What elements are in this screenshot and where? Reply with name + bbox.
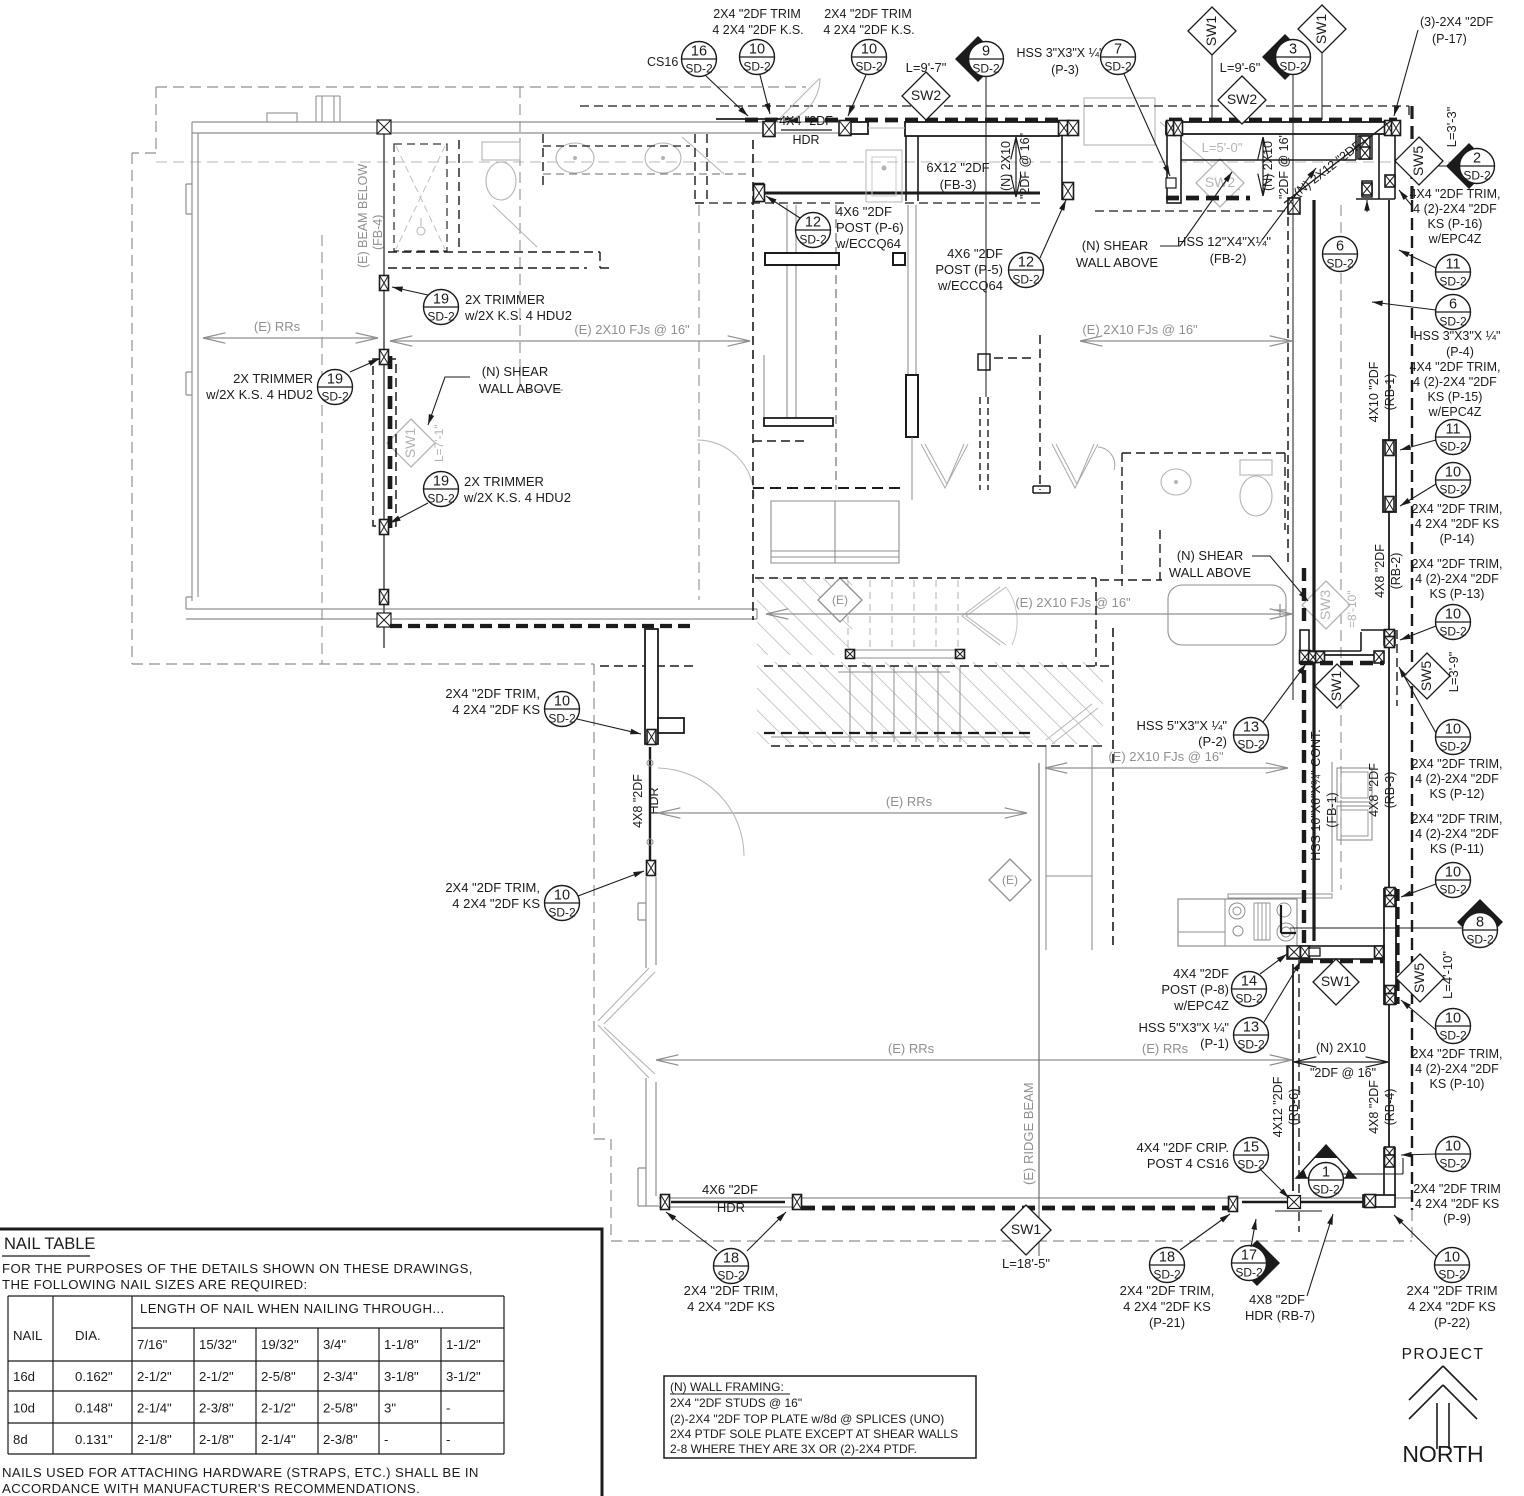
svg-text:2X4 "2DF TRIM: 2X4 "2DF TRIM	[1413, 1182, 1501, 1196]
wall framing note box	[664, 1376, 976, 1458]
closet door diagonal	[682, 137, 724, 174]
stairwell dashed bottom	[764, 732, 1030, 734]
svg-text:12: 12	[1018, 255, 1034, 271]
basement door diagonals	[1046, 704, 1098, 744]
hall closet dashed	[835, 205, 837, 490]
stove mark	[1281, 905, 1296, 933]
svg-text:NAIL: NAIL	[13, 1328, 42, 1343]
svg-text:14: 14	[1241, 974, 1257, 990]
strap left wall 4	[380, 590, 389, 605]
svg-text:SD-2: SD-2	[743, 60, 771, 74]
SW1 diamond bottom	[1001, 1205, 1051, 1255]
leader 10i	[577, 719, 641, 734]
svg-text:3: 3	[1289, 42, 1297, 58]
svg-text:4X4 "2DF: 4X4 "2DF	[1173, 966, 1229, 981]
chimney bump on north wall	[267, 113, 297, 122]
rb6 dashed	[1298, 960, 1300, 1232]
svg-text:SD-2: SD-2	[717, 1269, 745, 1283]
sofa	[771, 501, 899, 563]
leader 18b	[1180, 1214, 1230, 1250]
callout 13 b	[1234, 1018, 1269, 1053]
svg-text:HSS 5"X3"X ¼": HSS 5"X3"X ¼"	[1137, 718, 1228, 733]
svg-text:4X4 "2DF TRIM,: 4X4 "2DF TRIM,	[1409, 187, 1500, 201]
bath2 sink	[1161, 469, 1191, 495]
svg-text:10: 10	[554, 694, 570, 710]
hall west wall dashed	[752, 140, 754, 620]
shear wall bottom-left heavy dash	[390, 624, 694, 628]
svg-text:KS (P-11): KS (P-11)	[1430, 842, 1484, 856]
stair door chevron	[962, 587, 1006, 645]
vanity counter dashed	[543, 173, 746, 175]
svg-text:0.148": 0.148"	[75, 1401, 113, 1416]
svg-text:2-1/4": 2-1/4"	[261, 1432, 296, 1447]
svg-text:L=3'-3": L=3'-3"	[1444, 106, 1459, 147]
dim (N)2X10 bottom	[1294, 1061, 1388, 1063]
svg-text:(P-21): (P-21)	[1149, 1315, 1185, 1330]
svg-text:(RB-2): (RB-2)	[1389, 553, 1403, 590]
svg-text:w/EPC4Z: w/EPC4Z	[1428, 405, 1482, 419]
bath south wall dashed	[388, 252, 613, 268]
svg-text:w/2X K.S. 4 HDU2: w/2X K.S. 4 HDU2	[464, 308, 572, 323]
arrow up at right leg	[1366, 200, 1368, 212]
leader shear top	[1160, 172, 1232, 246]
callout 10 b	[852, 40, 887, 75]
SW1 diamond top a	[1188, 7, 1236, 55]
powder room vanity	[866, 150, 902, 202]
svg-text:L=3'-9": L=3'-9"	[1446, 651, 1461, 692]
svg-text:SW1: SW1	[402, 428, 418, 459]
east junction straps	[1300, 651, 1311, 664]
callout 10 i	[545, 692, 580, 727]
svg-text:2X4 "2DF TRIM,: 2X4 "2DF TRIM,	[445, 686, 540, 701]
svg-text:NAILS USED FOR ATTACHING HARDW: NAILS USED FOR ATTACHING HARDWARE (STRAP…	[2, 1465, 479, 1480]
bath door swing	[493, 205, 537, 247]
svg-text:(P-17): (P-17)	[1432, 32, 1467, 46]
svg-text:19/32": 19/32"	[261, 1337, 299, 1352]
fireplace box on north wall	[316, 96, 340, 122]
(E) 2X10 FJs dim upper-right	[1080, 340, 1292, 342]
sink basin 1	[556, 143, 594, 173]
svg-text:10: 10	[1445, 865, 1461, 881]
north wall 1 straps	[763, 122, 775, 137]
svg-text:4 (2)-2X4 "2DF: 4 (2)-2X4 "2DF	[1415, 772, 1499, 786]
beam FB-4 bottom strap	[377, 613, 391, 627]
callout 12 b	[1009, 253, 1044, 288]
svg-text:KS (P-10): KS (P-10)	[1430, 1077, 1485, 1091]
svg-text:6: 6	[1336, 239, 1344, 255]
svg-text:4 (2)-2X4 "2DF: 4 (2)-2X4 "2DF	[1415, 572, 1499, 586]
svg-text:(E) 2X10 FJs @ 16": (E) 2X10 FJs @ 16"	[1015, 595, 1131, 610]
svg-text:4 (2)-2X4 "2DF: 4 (2)-2X4 "2DF	[1413, 202, 1497, 216]
svg-text:4 2X4 "2DF KS: 4 2X4 "2DF KS	[1123, 1299, 1211, 1314]
header 4X8 left	[649, 747, 651, 860]
leader 11b	[1400, 440, 1436, 450]
kitchen south heavy dash	[1300, 959, 1384, 963]
svg-text:2X TRIMMER: 2X TRIMMER	[465, 292, 545, 307]
svg-text:2X TRIMMER: 2X TRIMMER	[233, 371, 313, 386]
hall door swing arc	[697, 440, 754, 497]
SW2 diamond b	[1218, 76, 1266, 124]
callout 18 b	[1150, 1248, 1185, 1283]
svg-text:HDR: HDR	[717, 1200, 745, 1215]
callout 19 b	[318, 370, 353, 405]
svg-text:SW2: SW2	[911, 87, 942, 103]
SW1 diamond junction	[1315, 664, 1359, 708]
svg-text:4 2X4 "2DF K.S.: 4 2X4 "2DF K.S.	[823, 23, 914, 37]
svg-text:w/EPC4Z: w/EPC4Z	[1173, 998, 1229, 1013]
svg-text:=8'-10": =8'-10"	[1345, 590, 1359, 628]
SW2 gray diamond top-right	[1196, 159, 1244, 207]
svg-text:(P-14): (P-14)	[1440, 532, 1475, 546]
svg-text:(E) RRs: (E) RRs	[1142, 1041, 1189, 1056]
stair risers lower	[850, 666, 960, 742]
svg-text:13: 13	[1243, 1020, 1259, 1036]
svg-text:2X TRIMMER: 2X TRIMMER	[464, 474, 544, 489]
svg-text:POST (P-5): POST (P-5)	[935, 262, 1003, 277]
leader shear mid	[1252, 556, 1308, 601]
SW1 diamond mid	[1313, 959, 1359, 1005]
CS16 strap line	[716, 118, 782, 120]
closet door dashed pair	[980, 397, 988, 490]
svg-text:-: -	[384, 1432, 388, 1447]
svg-text:(P-22): (P-22)	[1434, 1315, 1470, 1330]
kitchen south straps	[1288, 946, 1300, 958]
stair hatch	[581, 578, 1301, 748]
svg-text:18: 18	[723, 1251, 739, 1267]
east shear heavy dash lower	[1302, 670, 1306, 948]
svg-text:SD-2: SD-2	[1237, 738, 1265, 752]
callout 10 c	[1436, 463, 1471, 498]
svg-text:SW5: SW5	[1418, 661, 1434, 692]
callout 10 f	[1436, 863, 1471, 898]
svg-text:16d: 16d	[13, 1369, 35, 1384]
leader 10d	[1400, 626, 1436, 640]
svg-text:2X4 "2DF STUDS @ 16": 2X4 "2DF STUDS @ 16"	[670, 1396, 802, 1410]
entry door arc	[776, 78, 820, 122]
svg-text:4 2X4 "2DF KS: 4 2X4 "2DF KS	[687, 1299, 775, 1314]
stair stringer lines	[771, 672, 1030, 737]
strap left wall 5	[755, 184, 764, 199]
entry door swing	[1160, 122, 1240, 190]
living room south wall gray	[659, 1198, 1412, 1207]
leader 16	[706, 76, 748, 116]
svg-text:(FB-3): (FB-3)	[940, 177, 977, 192]
sink basin 2	[645, 143, 681, 173]
callout 10 k	[1435, 1248, 1470, 1283]
property/roof overhang dashed boundary	[132, 87, 1412, 1241]
svg-text:2X4 "2DF TRIM,: 2X4 "2DF TRIM,	[1411, 757, 1502, 771]
strap left wall 2	[380, 350, 389, 365]
stair door arc	[1006, 587, 1017, 645]
HSS continuous beam	[1312, 200, 1315, 941]
leader 15	[1260, 1169, 1289, 1198]
stair landing rail	[845, 650, 965, 658]
SW5 diamond mid	[1404, 653, 1450, 699]
svg-text:2X4 "2DF TRIM,: 2X4 "2DF TRIM,	[1411, 812, 1502, 826]
north wall 2 straps	[1167, 121, 1176, 136]
bath2 toilet	[1240, 460, 1272, 475]
svg-text:SD-2: SD-2	[1466, 933, 1494, 947]
svg-text:10d: 10d	[13, 1401, 35, 1416]
(E) 2X10 FJs dim upper	[390, 340, 750, 342]
svg-text:4X8 "2DF: 4X8 "2DF	[1367, 763, 1381, 817]
svg-text:(FB-1): (FB-1)	[1325, 792, 1339, 827]
svg-text:1: 1	[1322, 1165, 1330, 1181]
east strap bar kitchen	[1384, 889, 1396, 1004]
beam FB-3	[765, 192, 1040, 195]
SW2 diamond a	[902, 72, 950, 120]
toilet tank upper-left bath	[482, 142, 520, 160]
(E) 2X10 FJs dim kitchen	[1045, 767, 1288, 769]
door jamb gray	[868, 127, 905, 129]
svg-text:4X6 "2DF: 4X6 "2DF	[947, 246, 1003, 261]
svg-text:(E) 2X10 FJs @ 16": (E) 2X10 FJs @ 16"	[574, 322, 690, 337]
SW1 gray diamond left	[387, 419, 435, 467]
svg-text:2X4 "2DF TRIM,: 2X4 "2DF TRIM,	[1120, 1283, 1215, 1298]
svg-text:4X8 "2DF: 4X8 "2DF	[1249, 1292, 1305, 1307]
SW1 diamond top b	[1298, 5, 1346, 53]
stove vent	[1254, 903, 1270, 940]
svg-text:(RB-6): (RB-6)	[1287, 1089, 1301, 1126]
svg-text:2-1/8": 2-1/8"	[199, 1432, 234, 1447]
svg-text:(3)-2X4 "2DF: (3)-2X4 "2DF	[1420, 15, 1494, 29]
svg-text:NORTH: NORTH	[1402, 1441, 1483, 1467]
svg-text:-: -	[446, 1401, 450, 1416]
svg-text:2X4 "2DF TRIM: 2X4 "2DF TRIM	[824, 7, 912, 21]
shear wall left heavy dash	[388, 356, 393, 528]
north wall 1 outline	[850, 122, 868, 134]
vanity right partition	[695, 134, 707, 203]
(E) RRs dim mid-left	[658, 812, 1027, 814]
(E) RRs dim lower	[656, 1059, 1292, 1061]
small box upper-left	[893, 253, 905, 265]
hall post bar	[906, 375, 918, 437]
svg-text:7/16": 7/16"	[137, 1337, 168, 1352]
svg-text:HDR (RB-7): HDR (RB-7)	[1245, 1308, 1315, 1323]
svg-text:NAIL TABLE: NAIL TABLE	[4, 1235, 95, 1253]
bath2 walls dashed	[1100, 453, 1285, 586]
svg-text:(E): (E)	[832, 593, 848, 607]
svg-text:4 (2)-2X4 "2DF: 4 (2)-2X4 "2DF	[1413, 375, 1497, 389]
svg-text:(N) WALL FRAMING:: (N) WALL FRAMING:	[670, 1380, 784, 1394]
east strap bar 1	[1383, 440, 1396, 512]
leader 12b	[1040, 200, 1066, 258]
callout 10 a	[740, 40, 775, 75]
svg-text:(P-1): (P-1)	[1200, 1036, 1229, 1051]
kitchen shelf line	[1228, 894, 1332, 898]
interior gray dashed grid line A	[321, 235, 323, 664]
svg-text:10: 10	[1445, 1011, 1461, 1027]
callout 16	[682, 42, 717, 77]
callout 19 c	[424, 472, 459, 507]
strap at diagonal base	[1288, 198, 1300, 214]
leader 10j	[578, 871, 644, 896]
svg-text:7: 7	[1114, 42, 1122, 58]
svg-text:SD-2: SD-2	[1012, 273, 1040, 287]
svg-text:19: 19	[433, 292, 449, 308]
svg-text:SD-2: SD-2	[1153, 1268, 1181, 1282]
section 1 tail	[1343, 1158, 1403, 1174]
svg-text:SW1: SW1	[1011, 1221, 1042, 1237]
svg-text:w/2X K.S. 4 HDU2: w/2X K.S. 4 HDU2	[463, 490, 571, 505]
svg-text:w/2X K.S. 4 HDU2: w/2X K.S. 4 HDU2	[205, 387, 313, 402]
svg-text:4X6 "2DF: 4X6 "2DF	[702, 1182, 758, 1197]
svg-text:w/ECCQ64: w/ECCQ64	[937, 278, 1003, 293]
svg-text:2X4 "2DF TRIM,: 2X4 "2DF TRIM,	[1411, 502, 1502, 516]
south wall header RB-7	[1242, 1201, 1363, 1203]
svg-text:SD-2: SD-2	[321, 390, 349, 404]
bath2 faucet	[1274, 604, 1286, 616]
svg-text:4 2X4 "2DF KS: 4 2X4 "2DF KS	[1408, 1299, 1496, 1314]
svg-text:18: 18	[1159, 1250, 1175, 1266]
svg-text:19: 19	[327, 372, 343, 388]
svg-text:CS16: CS16	[647, 55, 678, 69]
leader 17	[1251, 1219, 1256, 1247]
leader 13b	[1264, 961, 1301, 1022]
svg-text:3/4": 3/4"	[323, 1337, 346, 1352]
thin dashed top chord	[580, 106, 1409, 120]
svg-text:(N) 2X10: (N) 2X10	[999, 141, 1013, 191]
svg-text:4X8 "2DF: 4X8 "2DF	[1373, 544, 1387, 598]
strap left wall 3	[380, 520, 389, 535]
svg-text:2-1/2": 2-1/2"	[199, 1369, 234, 1384]
svg-text:SW2: SW2	[1205, 174, 1236, 190]
stove burners	[1229, 903, 1295, 941]
SW5 diamond top	[1395, 137, 1443, 185]
leader 6b	[1372, 302, 1436, 310]
svg-text:6X12 "2DF: 6X12 "2DF	[926, 160, 989, 175]
svg-text:(N) SHEAR: (N) SHEAR	[482, 364, 548, 379]
svg-text:POST (P-8): POST (P-8)	[1161, 982, 1229, 997]
svg-text:SD-2: SD-2	[427, 492, 455, 506]
leader RB-7	[1307, 1214, 1333, 1296]
section 9	[955, 36, 1004, 82]
svg-text:(N) SHEAR: (N) SHEAR	[1177, 548, 1243, 563]
svg-text:10: 10	[1445, 607, 1461, 623]
svg-text:4 2X4 "2DF KS: 4 2X4 "2DF KS	[1415, 517, 1499, 531]
svg-text:HSS 5"X3"X ¼": HSS 5"X3"X ¼"	[1139, 1020, 1230, 1035]
callout 10 j	[545, 886, 580, 921]
kitchen west counters	[1046, 745, 1092, 950]
svg-text:-: -	[446, 1432, 450, 1447]
east shear heavy dash upper	[1302, 568, 1306, 628]
bifold arc	[1098, 447, 1115, 470]
svg-text:4 (2)-2X4 "2DF: 4 (2)-2X4 "2DF	[1415, 1062, 1499, 1076]
svg-text:4 2X4 "2DF K.S.: 4 2X4 "2DF K.S.	[712, 23, 803, 37]
bifold doors A	[921, 444, 968, 488]
section 17	[1232, 1240, 1281, 1286]
svg-text:4X6 "2DF: 4X6 "2DF	[836, 204, 892, 219]
sw1 line a	[1211, 55, 1213, 120]
svg-text:3-1/2": 3-1/2"	[446, 1369, 481, 1384]
callout 10 h	[1436, 1137, 1471, 1172]
svg-text:KS (P-15): KS (P-15)	[1428, 390, 1483, 404]
stairwell east dashed	[1095, 578, 1097, 666]
svg-text:DIA.: DIA.	[75, 1328, 101, 1343]
closet wall gray pair	[908, 205, 916, 375]
svg-text:9: 9	[982, 44, 990, 60]
leader 10b	[848, 75, 866, 116]
kitchen island divider	[1178, 899, 1225, 946]
existing wall upper-left room left	[186, 122, 198, 601]
svg-text:4X12 "2DF: 4X12 "2DF	[1271, 1076, 1285, 1137]
callout 7	[1101, 40, 1136, 75]
svg-text:SW1: SW1	[1328, 671, 1344, 702]
svg-text:L=7'-1": L=7'-1"	[432, 424, 446, 462]
leader P-17	[1394, 30, 1418, 116]
svg-text:(N) 2X12 "2DF: (N) 2X12 "2DF	[1291, 138, 1364, 199]
svg-text:2X4 "2DF TRIM,: 2X4 "2DF TRIM,	[1411, 1047, 1502, 1061]
svg-text:SD-2: SD-2	[1439, 275, 1467, 289]
svg-text:HSS 3"X3"X ¼": HSS 3"X3"X ¼"	[1017, 46, 1104, 60]
svg-text:2X4 PTDF SOLE PLATE EXCEPT AT: 2X4 PTDF SOLE PLATE EXCEPT AT SHEAR WALL…	[670, 1427, 958, 1441]
svg-text:10: 10	[1444, 1250, 1460, 1266]
svg-text:15/32": 15/32"	[199, 1337, 237, 1352]
svg-text:11: 11	[1445, 257, 1460, 273]
right exterior wall dashed	[1411, 200, 1413, 1210]
callout 15	[1234, 1138, 1269, 1173]
svg-text:10: 10	[554, 888, 570, 904]
living room west wall lower	[638, 1078, 659, 1206]
svg-text:(N) SHEAR: (N) SHEAR	[1082, 238, 1148, 253]
svg-text:WALL ABOVE: WALL ABOVE	[1076, 255, 1158, 270]
svg-text:4X8 "2DF: 4X8 "2DF	[631, 774, 645, 828]
(E) ridge beam line	[1038, 763, 1040, 1256]
leader 12a	[766, 196, 800, 218]
svg-text:2-8 WHERE THEY ARE 3X OR (2)-2: 2-8 WHERE THEY ARE 3X OR (2)-2X4 PTDF.	[670, 1442, 917, 1456]
svg-text:2-1/2": 2-1/2"	[261, 1401, 296, 1416]
svg-text:6: 6	[1449, 297, 1457, 313]
callout 18 a	[714, 1249, 749, 1284]
svg-text:(FB-4): (FB-4)	[371, 215, 385, 250]
svg-text:SD-2: SD-2	[548, 712, 576, 726]
shear wall left outline dashed	[373, 359, 396, 526]
right wall heavy top	[1410, 106, 1413, 200]
existing wall upper-left room top	[192, 122, 845, 133]
long gray dashed roof line	[156, 161, 1490, 163]
svg-text:(E) 2X10 FJs @ 16": (E) 2X10 FJs @ 16"	[1108, 749, 1224, 764]
svg-text:(RB-4): (RB-4)	[1383, 1089, 1397, 1126]
leader 18a1	[666, 1212, 717, 1251]
svg-text:(N) 2X10: (N) 2X10	[1261, 141, 1275, 191]
svg-text:4 2X4 "2DF KS: 4 2X4 "2DF KS	[452, 896, 540, 911]
svg-text:SW1: SW1	[1313, 14, 1329, 45]
svg-text:2X4 "2DF TRIM,: 2X4 "2DF TRIM,	[684, 1283, 779, 1298]
svg-text:2-3/8": 2-3/8"	[199, 1401, 234, 1416]
north wall 2 heavy dash	[1169, 118, 1397, 123]
leader 10e	[1399, 667, 1436, 733]
svg-text:8d: 8d	[13, 1432, 28, 1447]
svg-text:"2DF @ 16": "2DF @ 16"	[1018, 133, 1032, 199]
svg-text:L=18'-5": L=18'-5"	[1002, 1256, 1050, 1271]
svg-text:SD-2: SD-2	[548, 906, 576, 920]
hall wall gray single	[763, 355, 765, 419]
leader 19b	[350, 359, 379, 372]
svg-text:(FB-2): (FB-2)	[1210, 251, 1247, 266]
interior gray dashed kitchen line	[1340, 205, 1342, 890]
svg-text:16: 16	[691, 44, 707, 60]
svg-text:0.162": 0.162"	[75, 1369, 113, 1384]
svg-text:4X10 "2DF: 4X10 "2DF	[1367, 361, 1381, 422]
svg-text:SD-2: SD-2	[1235, 1266, 1263, 1280]
svg-text:SW3: SW3	[1317, 590, 1333, 621]
bathtub	[1168, 585, 1286, 645]
leader 10g	[1401, 1000, 1436, 1030]
callout 10 d	[1436, 605, 1471, 640]
svg-text:SD-2: SD-2	[1439, 483, 1467, 497]
section 3	[1262, 34, 1311, 80]
svg-text:SD-2: SD-2	[427, 310, 455, 324]
